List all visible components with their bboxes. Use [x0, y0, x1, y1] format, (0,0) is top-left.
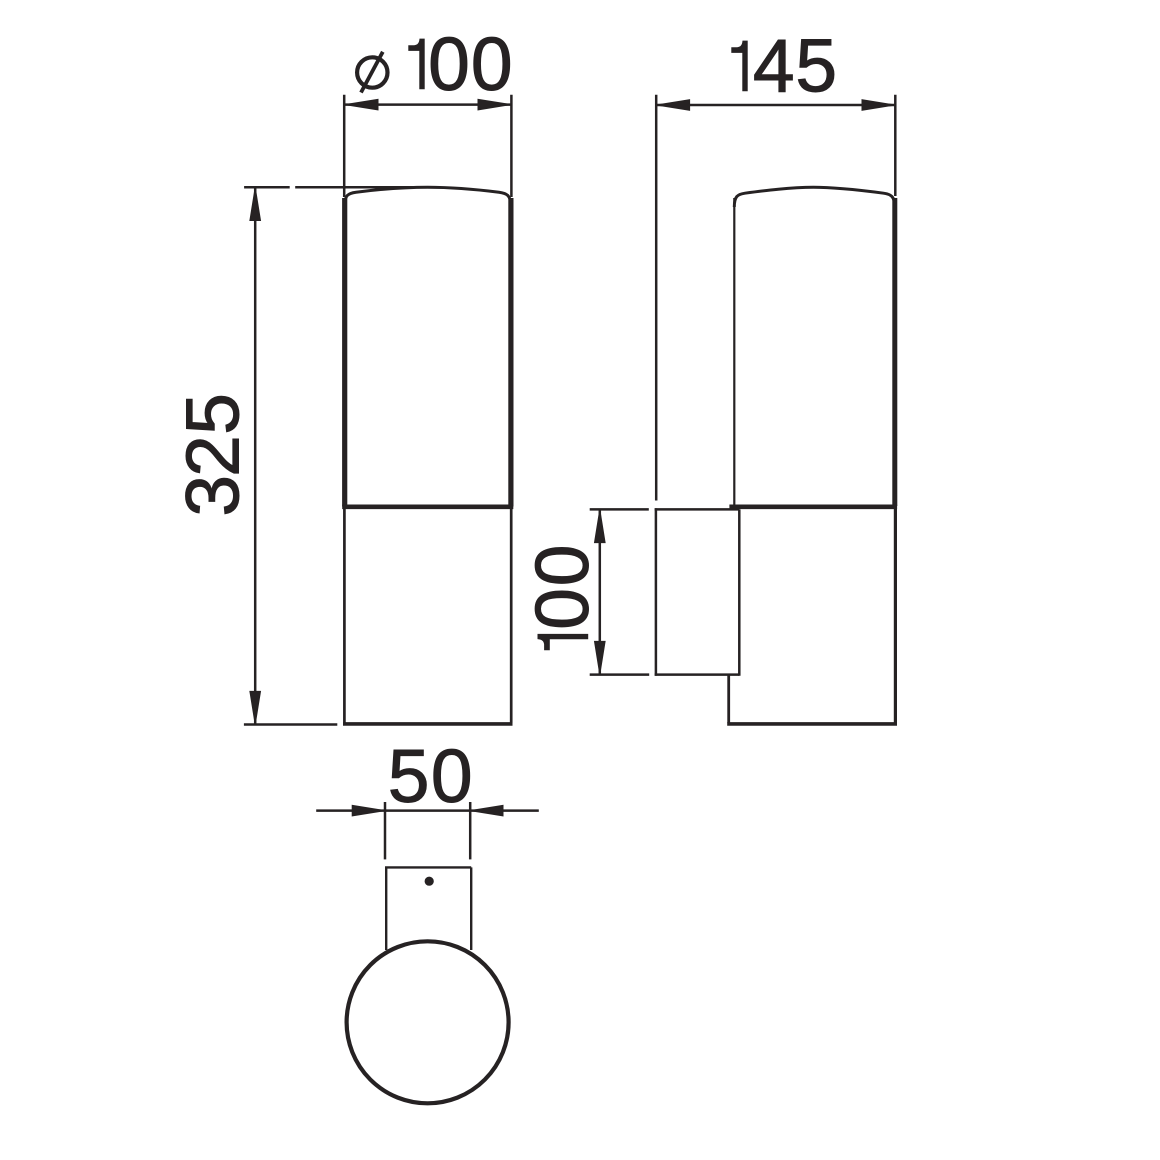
svg-text:5: 5 — [388, 734, 430, 818]
svg-text:2: 2 — [171, 435, 255, 477]
svg-text:0: 0 — [471, 22, 513, 106]
svg-text:5: 5 — [795, 24, 837, 108]
svg-text:5: 5 — [171, 393, 255, 435]
svg-text:3: 3 — [171, 475, 255, 517]
svg-text:4: 4 — [753, 24, 795, 108]
svg-text:0: 0 — [520, 544, 604, 586]
svg-text:0: 0 — [428, 22, 470, 106]
svg-text:0: 0 — [520, 588, 604, 630]
svg-text:0: 0 — [431, 734, 473, 818]
